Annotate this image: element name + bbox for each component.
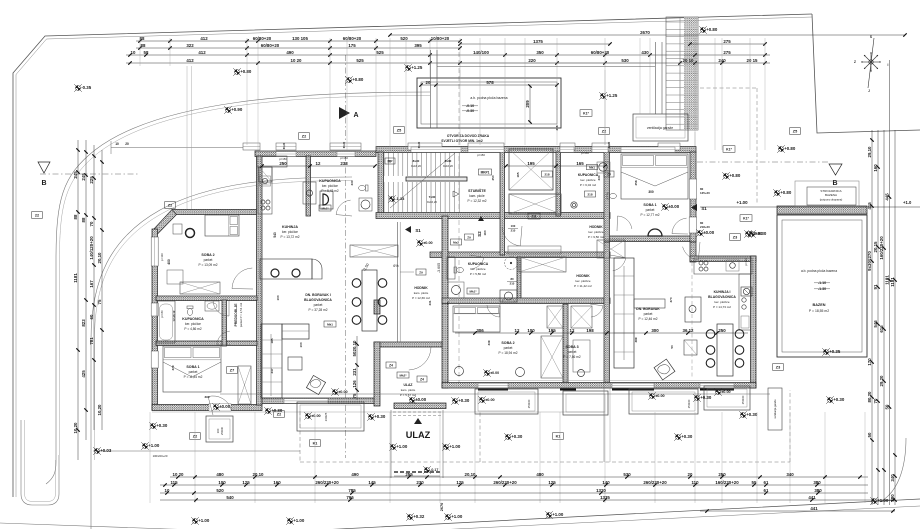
svg-text:543: 543 (273, 232, 277, 238)
svg-text:430: 430 (641, 50, 649, 55)
svg-text:9x16,20: 9x16,20 (411, 164, 421, 168)
svg-text:MP: MP (387, 159, 393, 163)
tag 218 shaft (542, 171, 553, 177)
east corridor wardrobe 2 (597, 240, 625, 258)
svg-text:KUPAONICA: KUPAONICA (578, 173, 599, 177)
room label STUBISTE (468, 188, 487, 203)
room label KUHINJA I BLAGOVAONICA east (708, 290, 736, 309)
+1.00 level line east (700, 200, 920, 207)
svg-text:ker. pločice: ker. pločice (282, 230, 298, 234)
svg-text:P = 37,28 m2: P = 37,28 m2 (309, 308, 328, 312)
electrical panel symbol east (741, 287, 752, 296)
kitchen block east low (684, 340, 697, 355)
section line A-A (345, 55, 347, 458)
armchair west swirl (306, 375, 325, 394)
level marker pm0.00 t4 (714, 388, 722, 396)
svg-text:210: 210 (510, 282, 515, 286)
svg-text:K1*: K1* (583, 111, 589, 115)
svg-text:20,10: 20,10 (352, 340, 357, 352)
svg-text:60/80+20: 60/80+20 (261, 43, 280, 48)
wall: east kitchen north wall (690, 256, 756, 262)
svg-text:±0.00: ±0.00 (655, 394, 664, 398)
svg-text:+1.00: +1.00 (449, 444, 461, 449)
left dim chains (73, 140, 104, 460)
tag Z2 north (599, 128, 610, 135)
svg-text:±0.00: ±0.00 (490, 371, 499, 375)
svg-text:parket: parket (504, 346, 513, 350)
svg-text:P = 12,77 m2: P = 12,77 m2 (641, 213, 660, 217)
svg-text:DN. BORAVAK: DN. BORAVAK (636, 307, 660, 311)
level marker +1.00 a (141, 442, 149, 450)
section marker A (339, 107, 359, 119)
svg-text:160: 160 (483, 230, 487, 235)
property boundary east curve low (880, 438, 906, 502)
driveway kerb U at south-west (21, 420, 59, 505)
dimension chain 2670 top (390, 34, 905, 36)
wall: vestibule north wall (374, 342, 442, 347)
wall: vestibule west wall (374, 342, 380, 406)
level marker +0.30 g (693, 394, 701, 402)
window west wall soba1 (151, 351, 158, 368)
svg-text:P = 11,84 m2: P = 11,84 m2 (184, 375, 203, 379)
svg-text:±0.00: ±0.00 (338, 390, 347, 394)
svg-text:Z2: Z2 (302, 134, 306, 138)
svg-text:140/120+20: 140/120+20 (89, 236, 94, 260)
tag Z7 (227, 367, 238, 374)
svg-text:1181: 1181 (73, 273, 78, 283)
svg-text:370: 370 (669, 297, 673, 302)
upper pool dimensions (419, 80, 558, 124)
svg-text:195: 195 (527, 161, 535, 166)
svg-text:230/25: 230/25 (324, 412, 328, 421)
svg-text:250: 250 (491, 175, 495, 180)
svg-text:Z5: Z5 (793, 129, 797, 133)
svg-text:20,15: 20,15 (873, 241, 878, 253)
svg-text:Z7: Z7 (230, 368, 234, 372)
svg-text:530: 530 (621, 58, 629, 63)
svg-text:a.b. podna ploča bazena: a.b. podna ploča bazena (470, 96, 507, 100)
svg-text:BAZENA: BAZENA (825, 193, 837, 197)
door arc main entry door (408, 347, 431, 370)
svg-text:+0.30: +0.30 (271, 408, 283, 413)
svg-text:P = 7,86 m2: P = 7,86 m2 (563, 355, 580, 359)
room label ULAZ vestibule (400, 383, 417, 397)
svg-text:50: 50 (670, 345, 674, 349)
svg-text:10: 10 (165, 488, 170, 493)
svg-text:160: 160 (273, 480, 281, 485)
wall: vestibule south wall (394, 403, 446, 409)
svg-text:12: 12 (316, 161, 321, 166)
svg-text:126: 126 (352, 380, 357, 388)
svg-text:+0.80: +0.80 (706, 27, 718, 32)
room label KUPAONICA west (182, 317, 204, 331)
svg-text:parket: parket (189, 370, 198, 374)
svg-text:165: 165 (576, 161, 584, 166)
tag K1 terrace west (310, 440, 321, 447)
svg-text:Z3: Z3 (733, 235, 737, 239)
svg-text:415: 415 (867, 202, 872, 210)
tag Z9 hodnik west (400, 269, 426, 275)
svg-text:ker. pločice: ker. pločice (580, 178, 595, 182)
air opening text (441, 134, 490, 143)
svg-text:Z2: Z2 (168, 203, 172, 207)
svg-text:198: 198 (586, 328, 594, 333)
svg-text:p=150: p=150 (477, 153, 485, 157)
svg-text:P = 18,55 m2: P = 18,55 m2 (809, 309, 829, 313)
svg-text:616: 616 (879, 325, 884, 333)
wall: spine wall west wing (257, 156, 263, 405)
svg-text:540: 540 (226, 495, 234, 500)
garage ventilation box north (633, 114, 688, 141)
svg-text:275: 275 (723, 39, 731, 44)
wall: north wall middle and east (376, 147, 696, 153)
level marker +0.32 (406, 513, 414, 521)
svg-text:Z4: Z4 (420, 377, 424, 381)
svg-text:160/220+20: 160/220+20 (879, 236, 884, 260)
svg-text:231: 231 (428, 300, 432, 305)
retaining wall above pool (437, 63, 655, 67)
svg-text:339: 339 (487, 340, 491, 345)
svg-text:10: 10 (131, 50, 136, 55)
svg-text:530: 530 (623, 472, 631, 477)
svg-text:STUBIŠTE: STUBIŠTE (468, 188, 486, 193)
level marker pm0.00 soba2 east (483, 369, 491, 377)
entrance text ULAZ (406, 418, 431, 440)
svg-text:140: 140 (602, 480, 610, 485)
door arc north bath (336, 200, 352, 216)
tag MKP1 (479, 169, 492, 175)
room label HODNIK east mid (574, 274, 592, 288)
driveway outer curve (46, 92, 430, 484)
garage wall line south-east (604, 383, 610, 462)
stair direction arrow (453, 191, 459, 197)
terrace door gaps south walls (284, 383, 734, 403)
dining table east (706, 324, 744, 376)
svg-text:OTVOR ZA DOVOD ZRAKA: OTVOR ZA DOVOD ZRAKA (447, 134, 490, 138)
terrace slab east 4 (704, 386, 750, 410)
level marker +1.00 bottom 2 (286, 517, 294, 525)
level marker +1.00 bottom 1 (191, 517, 199, 525)
zone dashed line east of house (756, 88, 758, 204)
svg-text:-0.17: -0.17 (430, 468, 438, 472)
svg-text:Z3: Z3 (776, 365, 780, 369)
tag Mk1 living west (324, 321, 336, 327)
east living sofa (614, 258, 665, 368)
interior dim row east top (506, 165, 605, 167)
svg-text:10,20: 10,20 (97, 404, 102, 416)
svg-text:140/100: 140/100 (473, 50, 489, 55)
svg-text:+0.30: +0.30 (700, 395, 712, 400)
svg-text:165: 165 (516, 172, 520, 177)
dimension chain top row4 (126, 62, 770, 64)
svg-text:SOBA 1: SOBA 1 (643, 203, 656, 207)
svg-text:70: 70 (873, 398, 878, 403)
svg-text:20,10: 20,10 (97, 252, 102, 264)
zone dashes kitchen east (691, 262, 693, 377)
level pm0.00 living west (331, 388, 339, 396)
east wall dims (700, 187, 710, 229)
door arc soba1 west room (208, 396, 231, 415)
svg-text:20,10: 20,10 (465, 472, 477, 477)
svg-text:+0.30: +0.30 (751, 231, 763, 236)
svg-text:100: 100 (276, 295, 280, 300)
svg-text:240: 240 (718, 58, 726, 63)
svg-text:-3.605: -3.605 (437, 263, 441, 273)
svg-text:ker. pločice: ker. pločice (588, 230, 603, 234)
centre line of air opening (458, 52, 460, 385)
svg-text:238: 238 (340, 161, 348, 166)
svg-text:525: 525 (356, 58, 364, 63)
svg-text:HODNIK: HODNIK (576, 274, 590, 278)
window west wall soba2 (151, 237, 158, 266)
svg-text:parket: parket (314, 303, 323, 307)
svg-text:Z: Z (854, 60, 856, 64)
svg-text:230: 230 (416, 480, 424, 485)
level marker +0.80 b (699, 26, 707, 34)
svg-text:255: 255 (405, 472, 413, 477)
svg-text:60/80+20: 60/80+20 (343, 36, 362, 41)
svg-text:ventilacija garaže: ventilacija garaže (647, 126, 673, 130)
svg-text:100/220+20: 100/220+20 (153, 454, 168, 458)
svg-text:75: 75 (352, 393, 357, 398)
svg-text:389: 389 (634, 337, 638, 342)
tag Z2 west (165, 202, 176, 209)
door arc soba2 (232, 268, 253, 289)
window sill bars south facade (478, 388, 734, 390)
svg-text:BLAGOVAONICA: BLAGOVAONICA (708, 295, 736, 299)
svg-text:9x16,20: 9x16,20 (427, 200, 437, 204)
svg-text:KUPAONICA: KUPAONICA (319, 179, 341, 183)
svg-text:1181: 1181 (890, 277, 895, 287)
svg-text:546: 546 (873, 320, 878, 328)
svg-text:250: 250 (718, 472, 726, 477)
svg-text:167: 167 (89, 280, 94, 288)
small dims west bath (160, 310, 176, 322)
level marker pm0.00 east soba1 (661, 203, 669, 211)
terrace edge band (152, 394, 770, 412)
svg-text:S1: S1 (701, 206, 707, 211)
north compass (854, 35, 889, 93)
svg-text:100: 100 (218, 480, 226, 485)
door arc predsoblje (213, 300, 229, 316)
svg-text:KUHINJA I: KUHINJA I (714, 290, 731, 294)
svg-text:379: 379 (171, 365, 175, 370)
svg-text:250/30: 250/30 (527, 399, 531, 408)
svg-text:+0.03: +0.03 (100, 448, 112, 453)
svg-text:-1.30: -1.30 (818, 287, 826, 291)
wall: stair room west wall (378, 152, 384, 216)
svg-text:±0.00: ±0.00 (703, 230, 715, 235)
svg-text:p=150: p=150 (340, 156, 348, 160)
right dim chains (867, 60, 897, 505)
svg-text:ker. pločice: ker. pločice (714, 300, 729, 304)
svg-text:P = 14,73 m2: P = 14,73 m2 (713, 305, 731, 309)
svg-text:p=110: p=110 (160, 253, 164, 261)
svg-text:KUPAONICA: KUPAONICA (182, 317, 204, 321)
svg-text:441: 441 (810, 506, 818, 511)
door arc east soba3 (590, 304, 603, 317)
east corridor wardrobe (519, 257, 566, 272)
svg-text:50: 50 (867, 432, 872, 437)
svg-text:1181: 1181 (884, 275, 889, 285)
svg-text:125: 125 (456, 480, 464, 485)
svg-text:+0.90: +0.90 (231, 107, 243, 112)
svg-text:781: 781 (89, 337, 94, 345)
wall: bath north middle (306, 156, 311, 216)
terrace slab centre (297, 402, 364, 431)
svg-text:8x30: 8x30 (445, 159, 452, 163)
wall: unit separation wall (604, 152, 610, 242)
svg-text:p=110: p=110 (744, 258, 748, 266)
svg-text:ker. pločice: ker. pločice (185, 322, 201, 326)
svg-text:195: 195 (548, 328, 556, 333)
east soba2 chairs (455, 367, 525, 377)
pool machinery room STROJARNICA (795, 181, 859, 206)
terrace slab east 3 (629, 389, 698, 414)
svg-text:260/220+20: 260/220+20 (643, 480, 667, 485)
svg-text:125: 125 (548, 480, 556, 485)
terrain line west of building (111, 141, 255, 154)
east kitchen counter (694, 258, 752, 330)
svg-text:300: 300 (651, 328, 659, 333)
soba1 east bed (621, 154, 688, 199)
dimension chain top row2 (136, 47, 460, 49)
svg-text:Z4: Z4 (389, 363, 393, 367)
svg-text:parket: parket (204, 258, 213, 262)
svg-text:245: 245 (81, 173, 86, 181)
wall: interior wall west soba1 (156, 341, 257, 346)
svg-text:12: 12 (515, 328, 520, 333)
svg-text:110: 110 (691, 480, 699, 485)
level marker +1.00 bottom 3b (444, 513, 452, 521)
svg-text:+0.30: +0.30 (681, 434, 693, 439)
kitchen west island (260, 259, 322, 301)
svg-text:SOBA 1: SOBA 1 (186, 365, 199, 369)
pool BAZEN (777, 215, 867, 357)
dimension chain top row1 (136, 40, 330, 42)
svg-text:p=150: p=150 (279, 157, 287, 161)
level marker +0.30 e (504, 433, 512, 441)
svg-text:10 20: 10 20 (173, 472, 185, 477)
svg-text:7x30: 7x30 (429, 195, 436, 199)
level marker S2 (477, 216, 484, 237)
room label KUPAONICA east mid (468, 262, 489, 276)
retaining wall west of pool (431, 50, 438, 128)
tag Z9 lobby (465, 234, 474, 240)
level -1.33 (388, 195, 396, 203)
svg-text:91: 91 (873, 284, 878, 289)
svg-text:20: 20 (426, 80, 431, 85)
svg-text:Z9: Z9 (419, 270, 423, 274)
svg-text:±0.00: ±0.00 (423, 241, 432, 245)
west unit hodnik partition (398, 222, 401, 342)
kitchen tall cabinet east (685, 297, 701, 322)
svg-text:399: 399 (204, 395, 209, 399)
svg-text:88: 88 (81, 217, 86, 222)
door arc garage S1 east (683, 242, 700, 260)
svg-text:P = 12,32 m2: P = 12,32 m2 (468, 199, 487, 203)
kitchen west fridge (259, 167, 272, 182)
svg-text:29,10: 29,10 (867, 146, 872, 158)
section marker B right (829, 164, 842, 187)
room label KUHINJA west (281, 225, 300, 239)
svg-text:±0.00: ±0.00 (721, 390, 730, 394)
svg-text:350: 350 (536, 50, 544, 55)
room label DN BORAVAK east (636, 307, 660, 321)
svg-text:BAZEN: BAZEN (812, 303, 825, 307)
wall: west outer wall (152, 229, 158, 410)
vent duct circle corridor (505, 257, 518, 270)
shaft with cross (509, 149, 553, 190)
svg-text:445: 445 (884, 193, 889, 201)
stair labels (411, 159, 453, 204)
svg-text:±0.00: ±0.00 (415, 397, 427, 402)
svg-text:400: 400 (167, 259, 171, 265)
wall: south wall east unit (442, 383, 756, 389)
svg-text:125+20: 125+20 (700, 191, 710, 195)
hall guide dashed lines (460, 70, 695, 146)
level marker +0.80 c (345, 76, 353, 84)
tag MP (385, 158, 395, 164)
level marker +1.00 bottom 3 (545, 511, 553, 519)
soba1 bed west (163, 346, 221, 392)
level marker S1 east (691, 204, 707, 211)
wall: living east wall stub (374, 300, 380, 314)
svg-text:+0.30: +0.30 (156, 423, 168, 428)
svg-text:+0.80: +0.80 (784, 146, 796, 151)
svg-text:S1: S1 (415, 228, 421, 233)
svg-text:MKP1: MKP1 (481, 170, 490, 174)
svg-text:22: 22 (35, 213, 39, 217)
svg-text:218: 218 (587, 192, 592, 196)
wall: wall above east bedrooms (442, 298, 610, 304)
svg-text:+1.00: +1.00 (736, 200, 748, 205)
svg-text:185: 185 (270, 338, 274, 343)
svg-text:100: 100 (216, 428, 220, 433)
staircase flight upper (384, 152, 459, 176)
svg-text:490: 490 (286, 50, 294, 55)
room label SOBA 2 west (199, 253, 218, 267)
level marker +0.30 a (149, 422, 157, 430)
svg-text:260/220+20: 260/220+20 (315, 480, 339, 485)
retaining wall east of pool (656, 42, 663, 114)
svg-text:I: I (888, 63, 889, 67)
svg-text:ventilacija garaže: ventilacija garaže (774, 399, 777, 419)
svg-text:K1*: K1* (726, 147, 732, 151)
door arc east soba2 (487, 304, 500, 317)
level marker pm0.00 t2 (478, 396, 486, 404)
svg-text:525: 525 (376, 50, 384, 55)
svg-text:10/80+20: 10/80+20 (431, 36, 450, 41)
wall: bath east upper wall (556, 152, 561, 216)
svg-text:+1.00: +1.00 (877, 498, 889, 503)
svg-text:P = 5,86 m2: P = 5,86 m2 (470, 272, 487, 276)
svg-text:29,20: 29,20 (879, 375, 884, 387)
room label DN BORAVAK west (304, 293, 332, 312)
svg-text:785: 785 (348, 488, 356, 493)
svg-text:20 10: 20 10 (683, 58, 695, 63)
wall: north wall west unit (255, 151, 376, 157)
level marker +1.00 b (389, 443, 397, 451)
wall: east unit mid wall (604, 242, 610, 383)
svg-text:60,20: 60,20 (417, 141, 421, 148)
level marker +0.30 pool-west (748, 230, 756, 238)
door label 100/210 corridor (508, 224, 518, 233)
level marker pm0.00 entry (408, 396, 416, 404)
svg-text:578: 578 (486, 80, 494, 85)
level marker +1.25 a (404, 64, 412, 72)
staircase handrail (406, 177, 467, 181)
